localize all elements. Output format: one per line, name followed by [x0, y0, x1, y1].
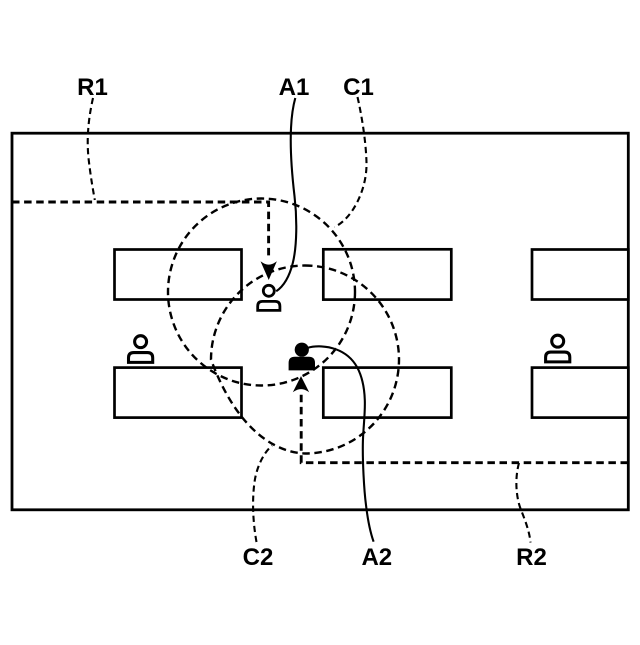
desk top-right	[532, 250, 628, 300]
person right (outline at right desk)	[546, 335, 570, 362]
circle C1	[168, 199, 355, 386]
leader line for label C2 (dashed)	[253, 446, 272, 543]
svg-text:A2: A2	[361, 544, 392, 571]
label A2	[361, 544, 392, 571]
desk bottom-left	[115, 368, 242, 418]
label A1	[279, 74, 310, 101]
route R1 dashed path	[12, 202, 269, 259]
label C1	[343, 74, 374, 101]
arrow A2	[294, 377, 308, 391]
leader line for label R1 (dashed)	[88, 98, 95, 200]
desk bottom-right	[532, 368, 628, 418]
leader line for label C1 (dashed)	[335, 97, 367, 227]
svg-text:C1: C1	[343, 74, 374, 101]
leader line for label R2 (dashed)	[516, 463, 530, 543]
label R2	[516, 544, 547, 571]
svg-text:A1: A1	[279, 74, 310, 101]
circle C2	[211, 266, 399, 454]
desk top-left	[115, 250, 242, 300]
label C2	[243, 544, 274, 571]
room outline	[12, 133, 628, 510]
desk bottom-middle	[323, 368, 451, 418]
svg-text:R1: R1	[77, 74, 108, 101]
route R2 dashed path	[301, 394, 628, 463]
person P2 (filled, in circle C2)	[289, 343, 315, 371]
svg-text:R2: R2	[516, 544, 547, 571]
leader line for label A2 (solid)	[307, 346, 374, 541]
person left (outline at left desk)	[129, 336, 153, 363]
leader line for label A1 (solid)	[276, 98, 296, 291]
arrow A1	[262, 263, 276, 279]
person P1 (outline, in circle C1)	[258, 285, 280, 310]
svg-text:C2: C2	[243, 544, 274, 571]
desk top-middle	[323, 249, 451, 299]
label R1	[77, 74, 108, 101]
